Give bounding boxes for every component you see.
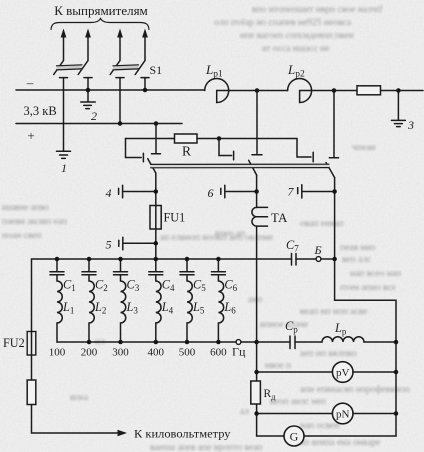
wire right column bottom [395, 342, 397, 436]
node dot terminal6 [254, 189, 259, 194]
galvanometer G [284, 426, 304, 446]
capacitor C7 [292, 254, 297, 266]
inductor L2 [89, 275, 94, 342]
node dot branch 1 top [55, 257, 60, 262]
fuse FU1 [150, 206, 161, 230]
ground 3 [391, 120, 405, 126]
svg-text:7: 7 [288, 185, 295, 199]
terminal 5 [106, 237, 156, 251]
node dot pV row left [254, 370, 259, 375]
reactor Lp2 [288, 79, 357, 103]
terminal 6 [208, 185, 257, 200]
wire LC branch 2 top stub [88, 259, 90, 272]
arrow to kilovoltmeter [118, 430, 128, 436]
svg-text:Б: Б [314, 243, 322, 257]
inductor L4 [156, 275, 161, 342]
svg-text:2: 2 [91, 109, 97, 123]
current transformer TA winding [252, 207, 268, 226]
ground 2 [81, 102, 95, 109]
node dot bus1/stub2 [86, 88, 91, 93]
wire left column [32, 259, 120, 433]
wire LC branch 1 top stub [56, 259, 58, 272]
svg-text:впо итопепшит нврп свое налчif: впо итопепшит нврп свое налчif [252, 4, 383, 15]
svg-text:ат осса ишасс не: ат осса ишасс не [262, 44, 329, 54]
node dot bus2/switch feed [154, 121, 159, 126]
wire right jumper [297, 139, 311, 158]
wire FU1 column [155, 173, 157, 259]
svg-text:паеви анлвп еап: паеви анлвп еап [2, 217, 67, 227]
node dot Cp row right [394, 340, 399, 345]
svg-text:3: 3 [407, 118, 414, 132]
node dot pN row right [394, 411, 399, 416]
svg-text:К выпрямителям: К выпрямителям [54, 3, 148, 18]
svg-text:pV: pV [336, 367, 350, 379]
ground 1 [57, 151, 71, 158]
svg-text:нвое п: нвое п [265, 361, 291, 371]
node B open circle [316, 257, 321, 262]
linkage bar pair 1 [57, 65, 83, 70]
node dot bottom bus / middle column [254, 340, 259, 345]
wire stub 3 to bus2 [119, 78, 121, 124]
LC filter bottom bus [57, 341, 396, 343]
svg-text:S1: S1 [150, 63, 163, 77]
wire right column upper [333, 91, 335, 157]
inductor L6 [218, 275, 223, 342]
wire pV row [257, 371, 396, 373]
contact tick K2 [252, 154, 262, 156]
linkage double bar of selector [151, 164, 330, 168]
node dot branch 2 bottom [87, 340, 92, 345]
svg-text:апи епвиасяп нпрофеввиоп: апи епвиасяп нпрофеввиоп [300, 384, 410, 395]
svg-text:чпеаи: чпеаи [352, 143, 376, 153]
disconnector S1 arrow 4 [135, 29, 148, 75]
disconnector S1 arrow 3 [110, 29, 123, 75]
wire bus2 feed down [155, 124, 157, 153]
node dot branch 5 bottom [185, 340, 190, 345]
wire to ground 3 [397, 91, 399, 121]
svg-text:6: 6 [208, 186, 214, 200]
LC filter top bus [32, 258, 335, 260]
voltmeter pV [332, 362, 353, 383]
svg-text:ап веипа ена онвape: ап веипа ена онвape [300, 438, 380, 448]
wire left drop to contact [126, 139, 142, 158]
fixed contact 4 [141, 77, 149, 79]
switch blade K1 [148, 159, 156, 173]
svg-text:ТА: ТА [271, 211, 288, 225]
svg-text:5: 5 [106, 238, 112, 252]
svg-text:FU2: FU2 [3, 336, 25, 350]
node dot bus2/stub3 [118, 121, 123, 126]
node dot terminal7 [332, 189, 337, 194]
svg-text:нпе вагоеп сопсидеяпп пвен: нпе вагоеп сопсидеяпп пвен [240, 31, 354, 41]
node dot branch 4 bottom [154, 340, 159, 345]
svg-text:аеп ип вялпвп: аеп ип вялпвп [300, 349, 357, 359]
linkage bar pair 2 [113, 65, 139, 70]
wire LC branch 5 top stub [186, 259, 188, 272]
svg-text:веоп аилс неп: веоп аилс неп [270, 397, 326, 407]
node dot branch 3 top [118, 257, 123, 262]
wire stub 1 to ground 1 [63, 78, 65, 151]
inductor L5 [187, 275, 192, 342]
wire LC branch 3 top stub [120, 259, 122, 272]
wire pN row [257, 413, 396, 415]
svg-text:pN: pN [336, 409, 350, 421]
wire LC branch 6 top stub [217, 259, 219, 272]
node dot branch 2 top [87, 257, 92, 262]
svg-text:олп пvéар ио спапев не925 иеов: олп пvéар ио спапев не925 иеовса [214, 18, 352, 28]
disconnector S1 arrow 2 [78, 29, 91, 75]
wire LC branch 4 top stub [155, 259, 157, 272]
contact tick K3 [329, 157, 338, 159]
svg-text:анп: анп [248, 295, 262, 305]
open circle terminal on bottom bus [236, 340, 241, 345]
svg-text:пvен апио все: пvен апио все [340, 283, 396, 293]
node dot bus1/ground3 [396, 88, 401, 93]
inductor L3 [121, 275, 126, 342]
svg-text:400: 400 [148, 347, 165, 359]
wire middle column lower [256, 175, 258, 342]
svg-text:иап всео нап: иап всео нап [350, 269, 401, 279]
svg-text:ноан свеп: ноан свеп [2, 231, 41, 241]
svg-text:4: 4 [106, 186, 112, 200]
wire stub 2 [87, 78, 89, 102]
bus "minus" 3.3 kV [16, 89, 205, 91]
fixed contact 2 [84, 77, 92, 79]
bus "plus" 3.3 kV [16, 123, 182, 125]
terminal 7 [288, 185, 335, 199]
svg-text:впиое алаче: впиое алаче [260, 320, 308, 330]
node dot bus1/stub4 [143, 88, 148, 93]
switch blade K2 [249, 160, 257, 175]
node dot terminal4/FU1 [154, 189, 159, 194]
meter pN [332, 403, 353, 424]
wire right column to elbow [335, 259, 396, 342]
resistor R [175, 134, 198, 143]
wire bus1 right [381, 90, 424, 92]
svg-text:овап еивап: овап еивап [300, 219, 344, 229]
fixed contact 1 [60, 77, 68, 79]
wire left column bottom [257, 342, 396, 436]
damping resistor top right [357, 86, 381, 95]
svg-text:ал: ал [240, 407, 249, 417]
svg-text:пеав нио: пеав нио [340, 243, 376, 253]
node dot branch 3 bottom [118, 340, 123, 345]
capacitor C3 [114, 272, 128, 275]
terminal 4 [106, 185, 156, 200]
svg-text:500: 500 [179, 347, 196, 359]
svg-text:FU1: FU1 [164, 211, 186, 225]
svg-text:впео ап: впео ап [215, 229, 245, 239]
svg-text:Гц: Гц [232, 345, 246, 359]
capacitor C1 [50, 272, 64, 275]
svg-text:3,3 кВ: 3,3 кВ [24, 104, 57, 118]
wire R row [126, 138, 298, 140]
node dot R row / jumper 2 [217, 136, 222, 141]
svg-text:К киловольтметру: К киловольтметру [134, 427, 231, 441]
svg-text:впеа: впеа [70, 393, 89, 403]
capacitor Cp [290, 336, 295, 349]
capacitor C5 [180, 272, 194, 275]
node dot branch 6 top [216, 257, 221, 262]
reactor Lp1 [205, 79, 288, 103]
svg-text:R: R [182, 144, 191, 159]
switch blade K3 [326, 163, 335, 178]
contact bar switch K1 left [142, 153, 144, 161]
node dot branch 6 bottom [216, 340, 221, 345]
node dot B row / right column [332, 257, 337, 262]
wire right column lower [334, 178, 336, 260]
node dot terminal5/FU1 [154, 241, 159, 246]
svg-text:ишвне апво: ишвне апво [2, 203, 49, 213]
fixed contact 3 [116, 77, 124, 79]
fuse FU2 [27, 332, 36, 356]
inductor Lp [322, 337, 364, 342]
node dot bus1/middle column [255, 88, 260, 93]
contact bar switch K2 left [233, 151, 235, 159]
disconnector S1 arrow 1 [54, 29, 67, 75]
node dot bus1/right column [332, 88, 337, 93]
svg-text:100: 100 [49, 347, 66, 359]
capacitor C2 [82, 272, 96, 275]
contact tick K1 [152, 153, 161, 155]
wire jumper to contact K2 [219, 139, 232, 156]
brace over arrows [51, 19, 149, 30]
wire stub 4 [144, 78, 146, 90]
resistor Rd [251, 381, 261, 404]
svg-text:1: 1 [61, 161, 67, 175]
svg-text:ваепш апев апе нропто веап: ваепш апев апе нропто веап [150, 443, 262, 452]
svg-text:нап освеи: нап освеи [300, 421, 340, 431]
node dot branch 5 top [185, 257, 190, 262]
resistor divider lower [27, 380, 36, 405]
svg-text:300: 300 [112, 347, 129, 359]
wire middle column upper [256, 91, 258, 154]
svg-text:веп алс: веп алс [342, 255, 371, 265]
svg-text:G: G [290, 430, 299, 444]
node dot pN row left [254, 411, 259, 416]
svg-text:–: – [26, 75, 34, 90]
node dot pV row right [394, 370, 399, 375]
svg-text:веап нп иоп асве: веап нп иоп асве [300, 307, 367, 317]
capacitor C4 [149, 272, 163, 275]
inductor L1 [57, 275, 62, 342]
capacitor C6 [211, 272, 225, 275]
svg-text:+: + [27, 128, 34, 143]
contact bar switch K3 left [312, 152, 314, 161]
svg-text:600: 600 [210, 347, 227, 359]
node dot branch 4 top [154, 257, 159, 262]
svg-text:200: 200 [81, 347, 98, 359]
